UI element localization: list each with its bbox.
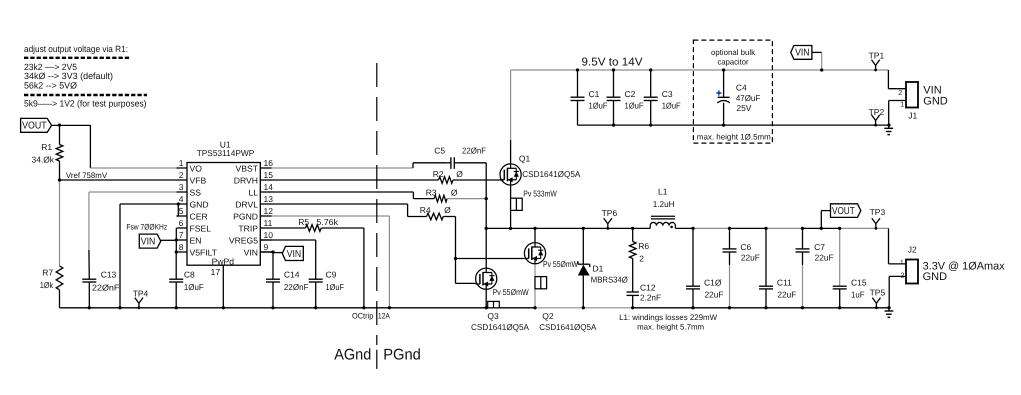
- svg-text:C5: C5: [434, 146, 445, 156]
- svg-text:VIN: VIN: [141, 237, 156, 248]
- svg-text:C1: C1: [589, 89, 600, 99]
- svg-text:C8: C8: [184, 269, 195, 279]
- svg-text:PGND: PGND: [233, 212, 258, 222]
- svg-text:34.Øk: 34.Øk: [32, 154, 55, 164]
- svg-text:GND: GND: [923, 271, 948, 283]
- svg-text:R7: R7: [42, 268, 53, 278]
- svg-text:R4: R4: [420, 205, 431, 215]
- svg-text:SS: SS: [190, 188, 202, 198]
- svg-text:Ø: Ø: [444, 205, 451, 215]
- svg-text:Pv 533mW: Pv 533mW: [523, 189, 557, 199]
- svg-text:C9: C9: [326, 269, 337, 279]
- svg-text:R1: R1: [41, 142, 52, 152]
- svg-text:3: 3: [179, 182, 184, 192]
- svg-text:1uF: 1uF: [851, 289, 865, 299]
- svg-text:1ØuF: 1ØuF: [184, 282, 204, 292]
- svg-text:Fsw 7ØØKHz: Fsw 7ØØKHz: [126, 223, 167, 232]
- svg-text:C13: C13: [101, 269, 117, 279]
- svg-text:TP5: TP5: [870, 288, 886, 298]
- svg-text:capacitor: capacitor: [718, 57, 749, 66]
- svg-text:22ØnF: 22ØnF: [462, 146, 486, 156]
- svg-text:VOUT: VOUT: [22, 121, 46, 132]
- svg-text:22uF: 22uF: [741, 252, 760, 262]
- svg-text:2.2nF: 2.2nF: [640, 292, 661, 302]
- svg-text:1ØuF: 1ØuF: [589, 101, 608, 111]
- svg-text:CSD1641ØQ5A: CSD1641ØQ5A: [522, 169, 580, 179]
- svg-text:VIN: VIN: [244, 248, 258, 258]
- svg-text:GND: GND: [190, 200, 209, 210]
- svg-text:VBST: VBST: [236, 164, 259, 174]
- svg-text:D1: D1: [593, 264, 604, 274]
- svg-text:adjust output voltage via R1:: adjust output voltage via R1:: [24, 44, 128, 54]
- svg-text:TP2: TP2: [869, 107, 885, 117]
- svg-text:L1: windings losses 229mW: L1: windings losses 229mW: [619, 313, 717, 322]
- svg-text:C11: C11: [777, 278, 792, 288]
- svg-text:TPS53114PWP: TPS53114PWP: [197, 148, 255, 158]
- svg-text:56k2 --> 5VØ: 56k2 --> 5VØ: [24, 80, 77, 90]
- svg-text:Vref 758mV: Vref 758mV: [66, 171, 108, 180]
- svg-text:1: 1: [900, 102, 904, 109]
- svg-text:1ØuF: 1ØuF: [326, 282, 345, 292]
- svg-text:LL: LL: [248, 188, 258, 198]
- svg-text:1Øk: 1Øk: [40, 280, 54, 290]
- svg-text:R3: R3: [426, 187, 437, 197]
- svg-text:VFB: VFB: [190, 176, 207, 186]
- svg-text:DRVH: DRVH: [234, 176, 258, 186]
- svg-text:TRIP: TRIP: [238, 224, 258, 234]
- svg-text:25V: 25V: [736, 103, 751, 113]
- svg-text:TP4: TP4: [133, 289, 149, 299]
- svg-text:13: 13: [264, 194, 274, 204]
- svg-text:Q3: Q3: [487, 311, 499, 321]
- svg-text:Pv 55ØmW: Pv 55ØmW: [493, 287, 529, 297]
- svg-text:C1Ø: C1Ø: [704, 278, 722, 288]
- svg-text:R6: R6: [638, 241, 649, 251]
- svg-text:6: 6: [179, 218, 184, 228]
- svg-text:VIN: VIN: [287, 249, 302, 260]
- svg-text:22ØnF: 22ØnF: [92, 283, 119, 293]
- svg-text:max. height 1Ø.5mm: max. height 1Ø.5mm: [697, 133, 771, 142]
- svg-text:TP1: TP1: [869, 51, 885, 61]
- svg-text:CSD1641ØQ5A: CSD1641ØQ5A: [539, 322, 597, 332]
- svg-text:5k9–––> 1V2 (for test purposes: 5k9–––> 1V2 (for test purposes): [24, 98, 147, 108]
- svg-text:MBRS34Ø: MBRS34Ø: [591, 274, 628, 284]
- svg-text:C6: C6: [740, 242, 751, 252]
- svg-text:VOUT: VOUT: [832, 206, 855, 217]
- svg-text:VIN: VIN: [795, 48, 810, 59]
- svg-text:J1: J1: [908, 111, 917, 121]
- svg-text:2: 2: [898, 90, 902, 97]
- svg-text:FSEL: FSEL: [190, 224, 212, 234]
- svg-text:22uF: 22uF: [777, 289, 796, 299]
- svg-text:2: 2: [639, 254, 644, 264]
- svg-text:8: 8: [179, 242, 184, 252]
- svg-text:VREG5: VREG5: [229, 236, 258, 246]
- svg-text:12: 12: [264, 206, 274, 216]
- svg-text:12A: 12A: [378, 312, 391, 321]
- svg-text:TP6: TP6: [602, 208, 618, 218]
- svg-text:L1: L1: [658, 187, 668, 197]
- svg-text:AGnd: AGnd: [334, 347, 371, 364]
- svg-text:5: 5: [179, 206, 184, 216]
- svg-text:9: 9: [264, 242, 269, 252]
- svg-text:Q1: Q1: [519, 154, 531, 164]
- svg-text:J2: J2: [908, 245, 917, 255]
- svg-text:C12: C12: [640, 283, 656, 293]
- svg-text:CSD1641ØQ5A: CSD1641ØQ5A: [471, 322, 529, 332]
- svg-text:Ø: Ø: [451, 187, 458, 197]
- svg-text:47ØuF: 47ØuF: [736, 93, 760, 103]
- svg-text:EN: EN: [190, 236, 202, 246]
- svg-text:GND: GND: [923, 95, 948, 107]
- svg-text:4: 4: [179, 194, 184, 204]
- svg-text:22uF: 22uF: [705, 289, 724, 299]
- svg-text:15: 15: [264, 170, 274, 180]
- svg-text:DRVL: DRVL: [235, 200, 258, 210]
- svg-text:10: 10: [264, 230, 274, 240]
- svg-text:22ØnF: 22ØnF: [284, 282, 309, 292]
- svg-text:17: 17: [211, 267, 221, 277]
- svg-text:1.2uH: 1.2uH: [653, 199, 675, 209]
- svg-text:R2: R2: [433, 169, 444, 179]
- svg-text:R5: R5: [298, 217, 309, 227]
- svg-text:TP3: TP3: [870, 207, 886, 217]
- svg-text:11: 11: [264, 218, 273, 228]
- svg-text:Ø: Ø: [456, 169, 463, 179]
- svg-text:Pv 55ØmW: Pv 55ØmW: [543, 259, 578, 269]
- svg-text:1ØuF: 1ØuF: [662, 101, 681, 111]
- svg-text:max. height 5.7mm: max. height 5.7mm: [637, 322, 704, 331]
- svg-text:C7: C7: [814, 242, 825, 252]
- svg-text:CER: CER: [190, 212, 208, 222]
- svg-text:22uF: 22uF: [815, 252, 834, 262]
- svg-text:7: 7: [179, 230, 184, 240]
- svg-text:2: 2: [901, 273, 905, 280]
- svg-text:C3: C3: [662, 89, 673, 99]
- svg-text:PwPd: PwPd: [212, 257, 235, 267]
- svg-text:C14: C14: [284, 269, 300, 279]
- svg-text:2: 2: [179, 170, 184, 180]
- svg-text:Q2: Q2: [542, 311, 554, 321]
- svg-text:C15: C15: [851, 278, 867, 288]
- svg-text:optional bulk: optional bulk: [711, 48, 756, 57]
- svg-text:1: 1: [900, 260, 904, 267]
- svg-text:5.76k: 5.76k: [316, 217, 338, 227]
- svg-text:C4: C4: [736, 83, 747, 93]
- svg-text:14: 14: [264, 182, 274, 192]
- svg-text:C2: C2: [625, 89, 636, 99]
- svg-text:OCtrip: OCtrip: [352, 312, 374, 321]
- svg-text:PGnd: PGnd: [383, 347, 421, 364]
- svg-text:VO: VO: [190, 164, 203, 174]
- svg-text:1: 1: [179, 158, 184, 168]
- svg-text:16: 16: [264, 158, 274, 168]
- svg-text:1ØuF: 1ØuF: [625, 101, 644, 111]
- svg-text:9.5V to 14V: 9.5V to 14V: [582, 56, 643, 68]
